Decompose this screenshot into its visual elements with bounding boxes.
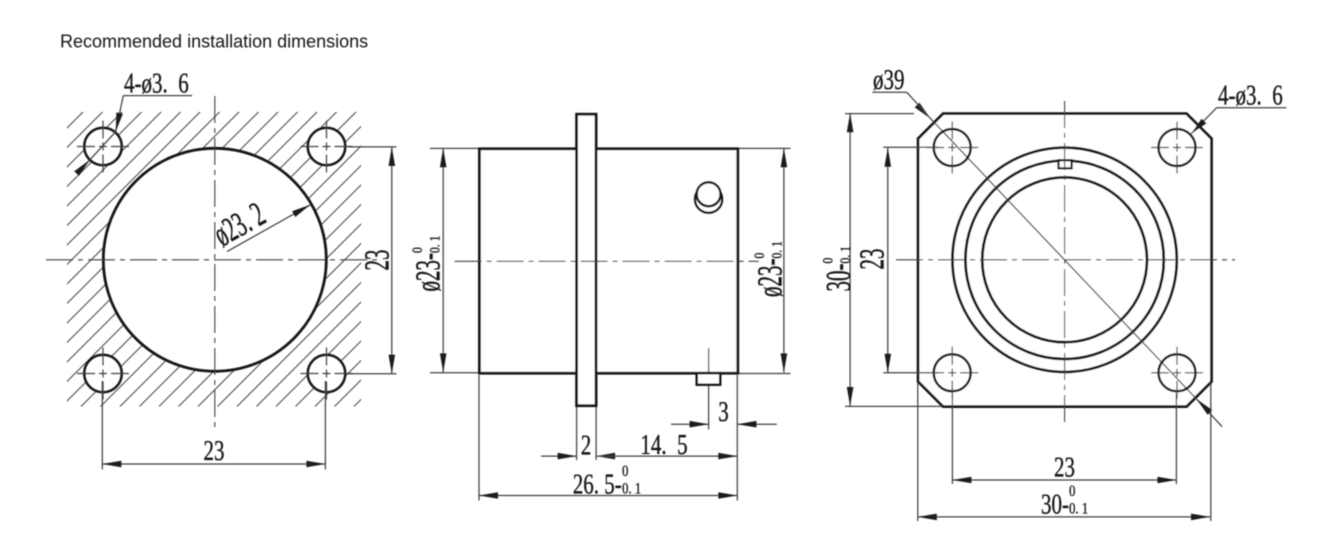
diameter leader Ø23.2 (left view): [227, 205, 310, 252]
dimension 26.5 extension line left (middle view): [478, 375, 480, 501]
bottom dimension 23 extension lines (right view): [951, 393, 953, 484]
vertical dimension 23 line (left view): [391, 147, 393, 374]
mounting hole 2 crosshair (left view): [301, 146, 353, 148]
dimension 14.5 line (middle view): [596, 455, 737, 457]
mounting hole 3 crosshair (left view): [77, 373, 129, 375]
svg-text:0: 0: [1069, 483, 1075, 501]
label 4-Ø3.6 with leader (right view): [1217, 107, 1287, 109]
left dimension 30 line (right view): [849, 113, 851, 406]
svg-text:30-: 30-: [1041, 490, 1069, 521]
svg-text:0. 1: 0. 1: [622, 480, 641, 498]
diagonal Ø39 line (right view): [930, 118, 1197, 400]
bore inner circle (right view): [982, 177, 1147, 342]
svg-text:0. 1: 0. 1: [768, 241, 785, 258]
right view horizontal centerline: [896, 259, 1235, 261]
svg-text:ø23-: ø23-: [409, 253, 448, 291]
dimension 2 line and arrows (middle view): [541, 455, 577, 457]
left dimension Ø23 line (middle view): [442, 148, 444, 372]
vertical dimension 23 extension lines (left view): [348, 146, 397, 148]
label Ø39 with leader (right view): [872, 91, 907, 93]
dimension 2 extension lines (middle view): [576, 407, 578, 460]
left view horizontal centerline: [46, 259, 379, 261]
svg-text:23: 23: [204, 436, 225, 467]
dimension 3 line and arrows (middle view): [671, 423, 709, 425]
bottom dimension 23 extension lines (left view): [101, 381, 103, 470]
connector body (middle view): [479, 149, 737, 373]
mounting hole 4 crosshair (left view): [301, 373, 353, 375]
mounting hole 1 Ø3.6 (left view): [84, 128, 122, 166]
bottom dimension 23 line (right view): [952, 479, 1176, 481]
svg-text:23: 23: [853, 249, 892, 270]
flange hole 1 Ø3.6 (right view): [934, 129, 971, 166]
middle view horizontal centerline: [455, 260, 759, 262]
locating pin top circle (middle view): [695, 186, 722, 213]
locating pin cap circle (middle view): [697, 182, 721, 206]
flange hole 3 Ø3.6 (right view): [934, 354, 971, 391]
panel cutout hatched area (left view): [67, 112, 361, 407]
left dimension Ø23 0/-0.1 text (middle view): [409, 236, 448, 292]
mounting hole 2 Ø3.6 (left view): [308, 128, 346, 166]
panel hole circle Ø23.2 (left view): [103, 148, 326, 371]
svg-text:14. 5: 14. 5: [640, 430, 687, 461]
bottom dimension 30 line (right view): [918, 516, 1210, 518]
svg-text:30-: 30-: [820, 263, 859, 291]
svg-text:0. 1: 0. 1: [426, 236, 443, 253]
svg-text:4-ø3. 6: 4-ø3. 6: [124, 69, 189, 100]
leader line 4-Ø3.6 (left view): [123, 95, 192, 97]
left dimension 23 extension lines (right view): [883, 146, 938, 148]
bottom tab (middle view): [697, 373, 721, 385]
flange hole 1 crosshair (right view): [926, 147, 978, 149]
right view vertical centerline: [1064, 101, 1066, 425]
mounting flange plate (middle view): [577, 114, 597, 406]
flange hole 2 Ø3.6 (right view): [1159, 129, 1196, 166]
svg-text:3: 3: [718, 397, 729, 428]
svg-text:23: 23: [358, 250, 397, 271]
mounting hole 1 crosshair (left view): [77, 146, 129, 148]
mounting hole 4 Ø3.6 (left view): [308, 355, 346, 393]
Ø39 arrowheads (right view): [915, 103, 933, 121]
svg-text:0. 1: 0. 1: [837, 246, 854, 263]
svg-text:Recommended installation dimen: Recommended installation dimensions: [60, 32, 368, 52]
dimension 3 extension line (middle view): [736, 375, 738, 501]
svg-text:0. 1: 0. 1: [1069, 500, 1088, 518]
right dimension Ø23 extension lines (middle view): [739, 147, 791, 149]
svg-text:0: 0: [409, 247, 426, 253]
svg-text:0: 0: [751, 252, 768, 258]
svg-text:23: 23: [1054, 453, 1075, 484]
bottom tab hidden edge line (middle view): [708, 348, 710, 429]
boss outer circle (right view): [952, 148, 1176, 372]
bottom dimension 23 line (left view): [102, 463, 325, 465]
left dimension 30 0/-0.1 text (right view): [819, 246, 858, 291]
dimension 26.5 line (middle view): [479, 495, 737, 497]
polarization key notch (right view): [1059, 160, 1072, 168]
right dimension Ø23 0/-0.1 text (middle view): [751, 241, 790, 297]
square flange outline (right view): [918, 114, 1211, 407]
diagonal Ø39 dimension line tail (right view): [1197, 399, 1223, 427]
flange hole 4 crosshair (right view): [1151, 372, 1203, 374]
flange hole 2 crosshair (right view): [1151, 147, 1203, 149]
flange hole 3 crosshair (right view): [926, 372, 978, 374]
bottom dimension 30 extension lines (right view): [917, 383, 919, 521]
left dimension Ø23 extension lines (middle view): [430, 147, 478, 149]
right dimension Ø23 line (middle view): [783, 148, 785, 372]
svg-text:2: 2: [581, 431, 592, 462]
svg-text:0: 0: [819, 257, 836, 263]
svg-text:4-ø3. 6: 4-ø3. 6: [1218, 81, 1283, 112]
svg-text:ø23-: ø23-: [751, 259, 790, 297]
svg-text:26. 5-: 26. 5-: [573, 470, 622, 501]
svg-text:ø39: ø39: [873, 65, 904, 96]
mounting hole 3 Ø3.6 (left view): [84, 355, 122, 393]
flange hole 4 Ø3.6 (right view): [1159, 354, 1196, 391]
boss middle circle (right view): [965, 161, 1163, 359]
left dimension 23 line (right view): [887, 148, 889, 373]
left dimension 30 extension lines (right view): [845, 113, 914, 115]
svg-text:0: 0: [622, 463, 628, 481]
left view vertical centerline: [214, 96, 216, 430]
